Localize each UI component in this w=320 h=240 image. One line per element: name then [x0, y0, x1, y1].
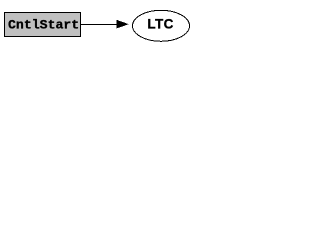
svg-text:LTC: LTC [147, 17, 173, 32]
node CntlStart box [5, 13, 81, 37]
wire [81, 24, 117, 26]
node LTC ellipse [133, 10, 190, 41]
arrowhead [117, 20, 129, 29]
svg-text:CntlStart: CntlStart [8, 18, 79, 33]
